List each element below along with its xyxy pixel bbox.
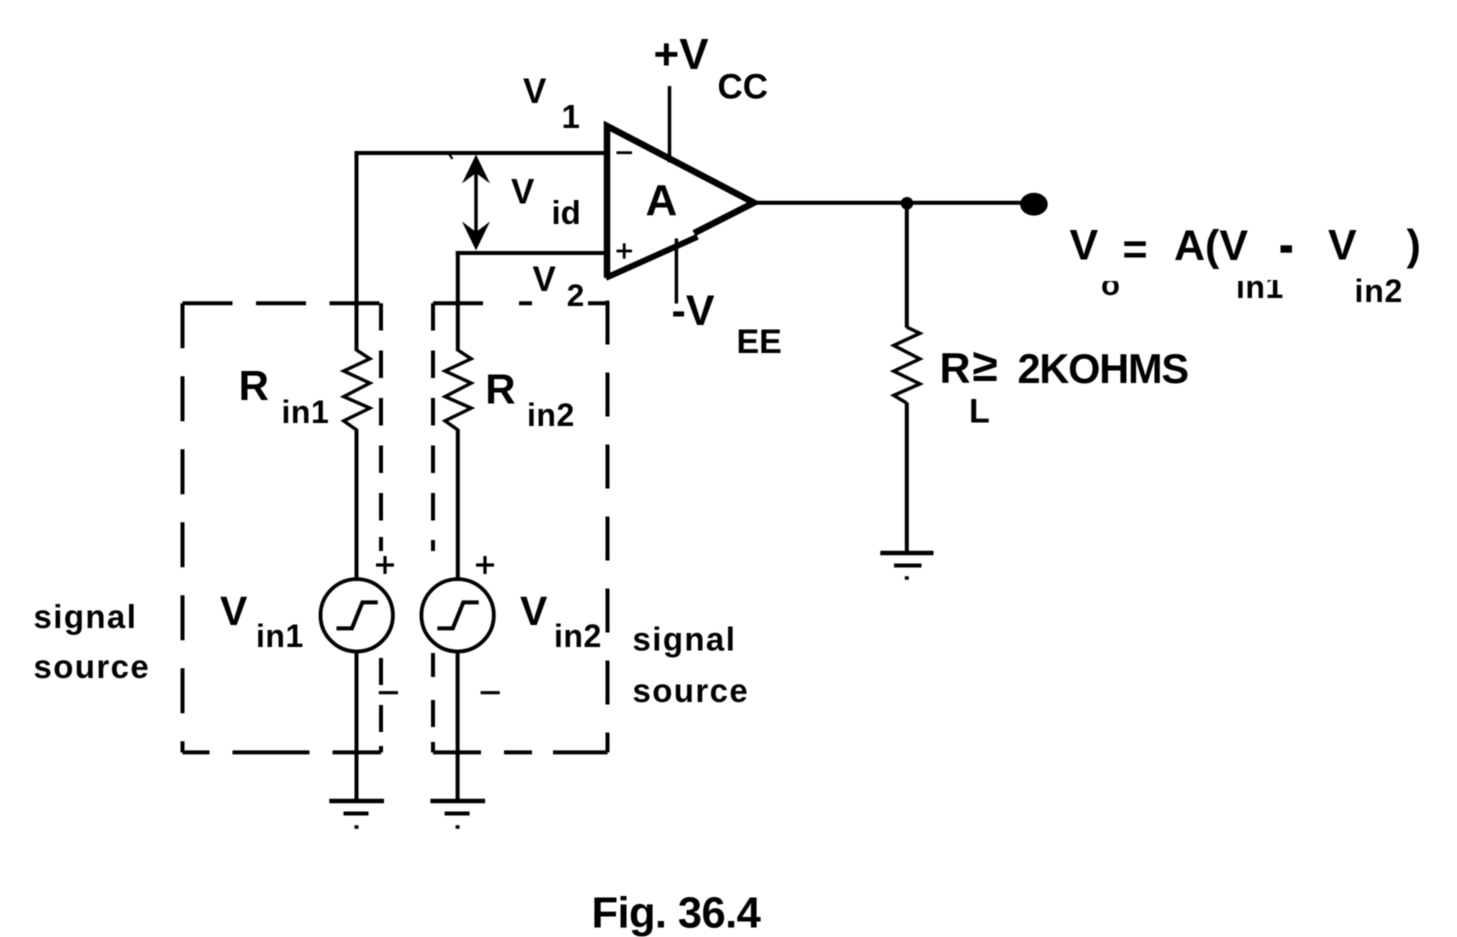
wire vertical from bottom input down to Rin2 [456, 251, 460, 351]
svg-text:V: V [1328, 222, 1357, 270]
dashed box signal source 2 - bottom edge [433, 750, 608, 754]
minus input pin symbol [617, 151, 633, 154]
svg-text:Fig. 36.4: Fig. 36.4 [592, 890, 761, 937]
junction tick artifact on top wire [449, 154, 453, 159]
svg-text:R: R [485, 366, 515, 413]
wire Rin2 to source2 [456, 429, 460, 579]
svg-text:in1: in1 [256, 618, 304, 654]
svg-text:CC: CC [718, 68, 769, 107]
svg-text:in1: in1 [282, 394, 330, 430]
dashed box signal source 2 - top edge [433, 301, 608, 305]
svg-text:in2: in2 [554, 618, 602, 654]
minus sign source1 [379, 691, 398, 694]
wire source2 to ground [456, 652, 460, 801]
equation Vo = A(Vin1 - Vin2) [1070, 222, 1421, 310]
wire vertical from top input down to Rin1 [355, 151, 359, 351]
svg-text:=: = [1123, 226, 1148, 274]
dashed box signal source 1 - left edge [181, 303, 185, 752]
label RL >= 2KOHMS [940, 339, 1189, 431]
op-amp bottom edge offset segment [606, 237, 698, 278]
resistor RL zigzag [894, 327, 920, 403]
svg-text:V: V [220, 588, 248, 634]
label V1 [523, 72, 580, 135]
wire bottom input V2 horizontal [456, 251, 610, 255]
resistor Rin1 zigzag [344, 350, 370, 430]
svg-text:≥: ≥ [973, 339, 998, 391]
svg-text:V: V [1070, 222, 1099, 270]
output terminal dot [1020, 193, 1048, 216]
wire source1 to ground [355, 652, 359, 801]
label signal source right [633, 621, 750, 710]
svg-text:source: source [34, 648, 151, 685]
dashed box signal source 1 - right edge [379, 303, 383, 752]
svg-text:1: 1 [562, 98, 580, 135]
minus sign source2 [481, 691, 500, 694]
svg-text:o: o [1101, 267, 1120, 302]
source V_in1 circle [321, 579, 393, 651]
label Rin1 [239, 362, 330, 430]
label Rin2 [485, 366, 574, 434]
svg-text:in1: in1 [1236, 269, 1284, 305]
svg-text:signal: signal [633, 621, 737, 658]
svg-text:R: R [239, 362, 269, 409]
svg-text:L: L [969, 393, 990, 431]
resistor Rin2 zigzag [445, 350, 471, 430]
label Vin2 [520, 588, 602, 654]
svg-text:in2: in2 [1355, 273, 1404, 309]
svg-text:in2: in2 [527, 397, 575, 433]
Vid measurement arrow shaft [474, 158, 478, 246]
op-amp U1 triangle [607, 126, 754, 278]
-Vee supply lead [675, 239, 679, 304]
Vid arrowhead up [462, 155, 490, 184]
dashed box signal source 1 - bottom edge [183, 750, 382, 754]
svg-text:A(V: A(V [1174, 222, 1248, 270]
source V_in2 circle [421, 579, 493, 651]
svg-text:signal: signal [34, 598, 138, 635]
svg-text:2: 2 [567, 277, 585, 313]
svg-text:+V: +V [654, 30, 710, 79]
svg-text:2KOHMS: 2KOHMS [1018, 345, 1189, 392]
ground source1 [329, 801, 384, 827]
svg-text:-V: -V [672, 287, 715, 335]
ground source2 [430, 801, 485, 827]
ground RL [880, 553, 933, 578]
wire RL to ground [905, 403, 909, 554]
+Vcc supply lead [668, 86, 672, 163]
svg-text:A: A [646, 176, 678, 225]
plus sign source2 [476, 556, 494, 574]
wire junction down to RL [905, 203, 909, 328]
plus input pin symbol [617, 243, 633, 258]
wire Rin1 to source1 [355, 429, 359, 579]
label Vin1 [220, 588, 304, 654]
wire top input V1 horizontal [355, 151, 611, 155]
junction node dot [901, 197, 914, 210]
Vid arrowhead down [462, 222, 490, 251]
output wire [754, 201, 1033, 205]
plus sign source1 [376, 556, 394, 574]
label Vid [511, 173, 581, 232]
svg-text:id: id [552, 194, 581, 231]
label V2 [533, 260, 585, 313]
svg-text:V: V [533, 260, 557, 299]
label +Vcc [654, 30, 769, 107]
svg-text:V: V [511, 173, 535, 212]
svg-text:V: V [523, 72, 547, 111]
svg-text:R: R [940, 345, 971, 393]
svg-text:EE: EE [737, 323, 782, 361]
dashed box signal source 1 - top edge [183, 301, 382, 305]
source V_in2 ramp symbol [437, 602, 478, 628]
dashed box signal source 2 - right edge [606, 301, 610, 753]
dashed box signal source 2 - left edge [431, 303, 435, 752]
svg-text:V: V [520, 588, 548, 634]
svg-text:): ) [1407, 222, 1421, 270]
label -Vee [672, 287, 782, 361]
source V_in1 ramp symbol [337, 602, 378, 628]
label signal source left [34, 598, 151, 685]
svg-text:source: source [633, 672, 750, 709]
